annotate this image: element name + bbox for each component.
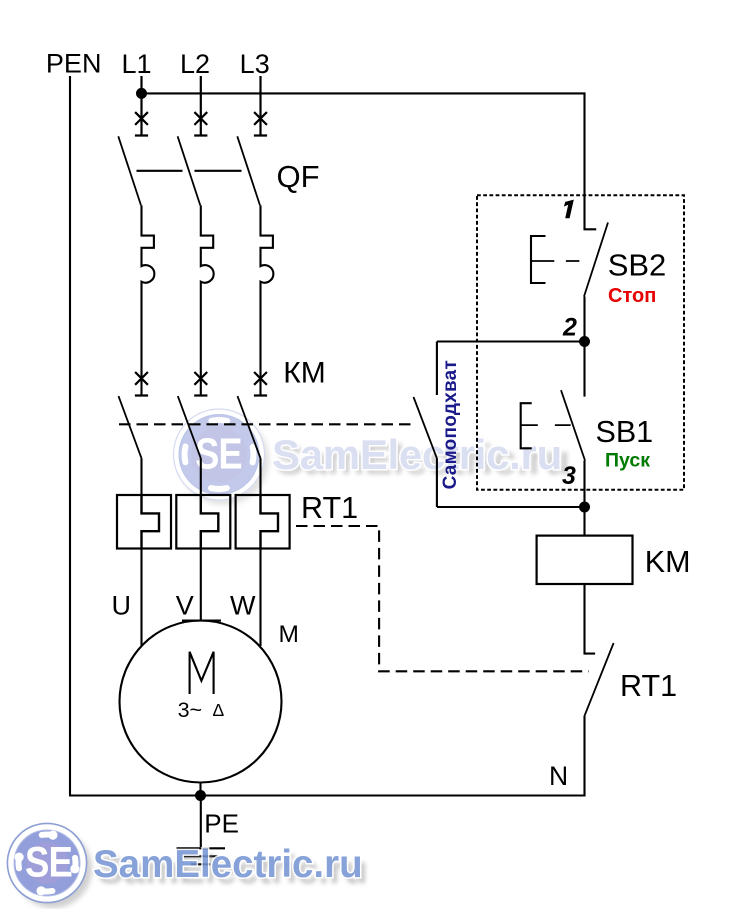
svg-text:RT1: RT1 xyxy=(301,491,358,525)
svg-text:RT1: RT1 xyxy=(620,669,677,703)
svg-text:Самоподхват: Самоподхват xyxy=(440,360,461,489)
svg-text:SamElectric.ru: SamElectric.ru xyxy=(93,843,363,886)
svg-text:SamElectric.ru: SamElectric.ru xyxy=(272,431,562,478)
svg-text:3~: 3~ xyxy=(178,698,203,722)
svg-text:QF: QF xyxy=(277,159,320,194)
svg-text:L1: L1 xyxy=(121,49,151,79)
svg-text:L2: L2 xyxy=(180,49,210,79)
svg-text:M: M xyxy=(279,621,299,648)
svg-text:W: W xyxy=(230,590,256,620)
svg-text:SE: SE xyxy=(195,429,242,478)
svg-text:PEN: PEN xyxy=(46,49,102,79)
svg-text:Δ: Δ xyxy=(213,700,225,720)
svg-text:N: N xyxy=(549,761,568,791)
svg-text:3: 3 xyxy=(562,462,576,490)
svg-text:L3: L3 xyxy=(240,49,270,79)
svg-text:SB1: SB1 xyxy=(596,415,654,449)
svg-text:КМ: КМ xyxy=(283,356,325,389)
svg-text:SE: SE xyxy=(25,839,72,886)
svg-text:KM: KM xyxy=(645,545,691,579)
svg-text:Пуск: Пуск xyxy=(605,449,650,471)
svg-text:Стоп: Стоп xyxy=(608,285,656,307)
svg-text:V: V xyxy=(176,590,194,620)
svg-text:PE: PE xyxy=(204,809,239,839)
svg-text:U: U xyxy=(111,590,131,620)
svg-text:SB2: SB2 xyxy=(608,248,667,283)
svg-text:2: 2 xyxy=(562,314,577,342)
